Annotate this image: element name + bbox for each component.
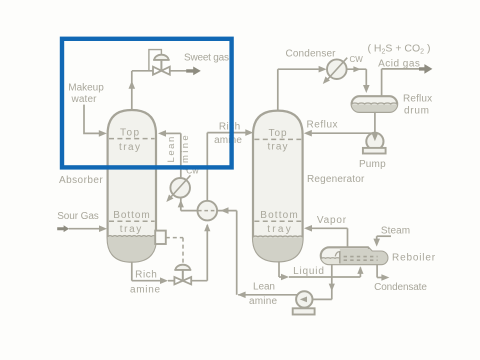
wire: absorber overhead to sweet gas valve [131, 71, 133, 110]
regenerator bottom tray dashed line [254, 220, 301, 222]
blue highlight rectangle [62, 39, 232, 168]
svg-text:( H2S + CO2 ): ( H2S + CO2 ) [368, 42, 431, 55]
wire: drum to reflux pump [374, 112, 376, 133]
acid gas bold arrow [419, 64, 432, 74]
wire: steam line [377, 235, 391, 237]
svg-text:Pump: Pump [359, 159, 386, 170]
svg-text:Lean: Lean [166, 137, 177, 163]
svg-text:water: water [71, 94, 98, 105]
svg-text:Sweet gas: Sweet gas [184, 53, 229, 64]
svg-text:Makeup: Makeup [68, 82, 104, 93]
svg-text:CW: CW [350, 55, 364, 64]
wire: condensate line [376, 264, 378, 277]
svg-text:Vapor: Vapor [317, 215, 347, 226]
wire: lean amine from pump to exchanger [217, 210, 237, 212]
pressure control valve on sweet gas [154, 55, 168, 60]
regenerator top tray dashed line [254, 138, 301, 140]
reflux drum vessel [352, 96, 398, 112]
wire: rich amine to exchanger [191, 280, 207, 282]
condenser circle [327, 59, 347, 79]
wire: regenerator bottoms liquid line [278, 261, 280, 277]
wire: lean amine to exchanger [238, 294, 297, 296]
wire: acid gas from drum [381, 69, 383, 96]
cooler circle with Cw [170, 178, 190, 198]
level nozzle box on absorber [155, 231, 166, 244]
svg-text:tray: tray [268, 142, 288, 153]
svg-text:Top: Top [120, 127, 139, 138]
absorber column shell [108, 110, 156, 262]
wire: valve signal loop [149, 50, 162, 70]
svg-text:drum: drum [404, 105, 429, 116]
svg-text:Steam: Steam [381, 226, 410, 237]
absorber bottom tray dashed line [109, 220, 155, 222]
wire: sour gas feed line [69, 228, 100, 230]
regenerator column shell [253, 111, 303, 262]
svg-text:Bottom: Bottom [113, 210, 150, 221]
svg-text:amine: amine [130, 284, 160, 295]
reboiler weir [339, 251, 341, 263]
wire: lean amine riser to absorber [158, 130, 166, 137]
wire: level signal dashed [166, 237, 183, 239]
wire: rich amine to regenerator [206, 133, 208, 201]
wire: regenerator overhead to condenser [277, 69, 279, 110]
lean amine pump [296, 291, 312, 307]
svg-text:Reboiler: Reboiler [392, 253, 436, 264]
wire: rich amine from absorber bottom [131, 262, 133, 281]
wire: vapor from reboiler to regenerator [347, 228, 349, 247]
wire: reboiler bottoms to lean pump [331, 264, 333, 299]
svg-text:amine: amine [249, 296, 278, 307]
svg-text:Condenser: Condenser [286, 48, 337, 59]
svg-text:Bottom: Bottom [260, 210, 298, 221]
sweet gas bold arrow [186, 67, 201, 76]
level control valve on rich amine [176, 265, 191, 270]
reboiler tube bundle [344, 256, 378, 258]
wire: condenser to reflux drum [346, 68, 366, 70]
svg-text:Top: Top [269, 128, 287, 139]
svg-text:Condensate: Condensate [374, 282, 427, 293]
wire: reflux line to regenerator [312, 132, 372, 134]
svg-text:Reflux: Reflux [306, 119, 337, 130]
svg-text:Sour Gas: Sour Gas [57, 211, 99, 222]
svg-text:Regenerator: Regenerator [307, 174, 365, 185]
wire: makeup water line [84, 105, 99, 134]
svg-text:Absorber: Absorber [59, 175, 103, 186]
heat exchanger circle [198, 201, 218, 221]
reflux pump [366, 133, 383, 150]
svg-text:Reflux: Reflux [403, 94, 432, 105]
absorber top tray dashed line [109, 138, 155, 140]
reboiler kettle shell [321, 247, 388, 264]
svg-text:Lean: Lean [253, 281, 275, 292]
svg-text:Rich: Rich [135, 269, 157, 280]
svg-text:Acid gas: Acid gas [378, 59, 420, 70]
svg-text:Liquid: Liquid [293, 266, 324, 277]
svg-text:amine: amine [214, 135, 242, 146]
sour gas bold arrow [57, 225, 69, 232]
